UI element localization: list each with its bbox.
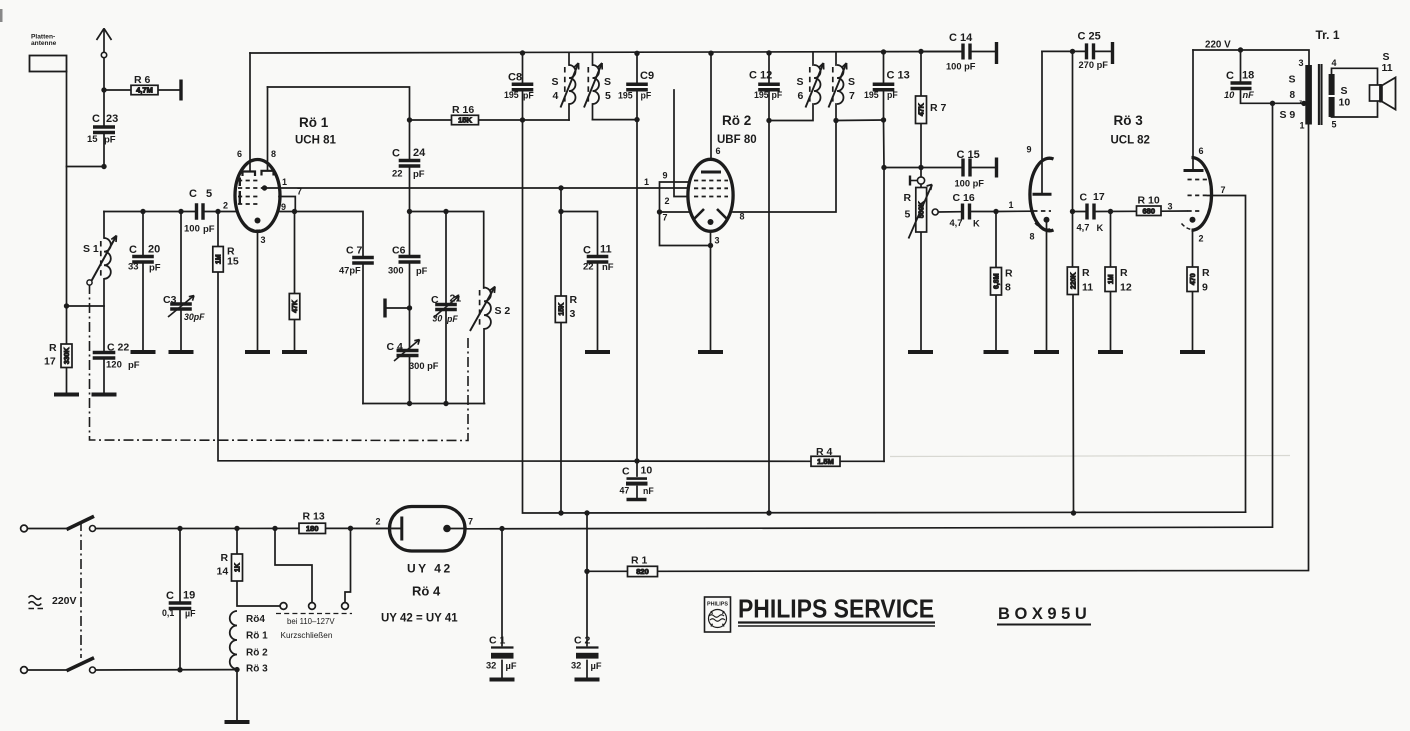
svg-text:5: 5 bbox=[605, 90, 611, 102]
svg-text:6,8M: 6,8M bbox=[994, 273, 1001, 289]
svg-text:47pF: 47pF bbox=[339, 266, 361, 276]
svg-text:Rö 3: Rö 3 bbox=[246, 664, 268, 675]
svg-text:R 16: R 16 bbox=[452, 104, 474, 116]
svg-text:9: 9 bbox=[1027, 145, 1032, 155]
svg-text:R 13: R 13 bbox=[303, 511, 325, 523]
svg-text:5: 5 bbox=[1332, 120, 1337, 130]
svg-text:18: 18 bbox=[1242, 70, 1254, 82]
svg-text:C: C bbox=[129, 244, 137, 256]
svg-text:33: 33 bbox=[128, 262, 139, 273]
svg-text:17: 17 bbox=[44, 356, 56, 368]
svg-text:8: 8 bbox=[271, 149, 276, 159]
svg-text:UCL 82: UCL 82 bbox=[1111, 135, 1150, 147]
svg-text:K: K bbox=[1097, 223, 1104, 233]
svg-text:C: C bbox=[166, 590, 174, 602]
svg-text:S: S bbox=[848, 76, 855, 88]
svg-text:Rö 3: Rö 3 bbox=[1114, 113, 1144, 128]
svg-text:1: 1 bbox=[1300, 121, 1305, 131]
svg-text:6: 6 bbox=[716, 146, 721, 156]
svg-text:C: C bbox=[189, 188, 197, 200]
svg-text:pF: pF bbox=[203, 224, 215, 235]
svg-text:8: 8 bbox=[1030, 232, 1035, 242]
svg-text:9: 9 bbox=[281, 202, 286, 212]
svg-text:C 4: C 4 bbox=[387, 341, 404, 353]
svg-text:C3: C3 bbox=[163, 294, 177, 306]
svg-text:3: 3 bbox=[261, 235, 266, 245]
svg-text:21: 21 bbox=[450, 293, 462, 305]
svg-text:Kurzschließen: Kurzschließen bbox=[281, 631, 333, 640]
svg-text:680: 680 bbox=[1142, 206, 1155, 215]
svg-text:500K: 500K bbox=[919, 201, 926, 218]
svg-text:UBF 80: UBF 80 bbox=[717, 134, 757, 146]
svg-text:120: 120 bbox=[106, 360, 122, 371]
svg-text:23: 23 bbox=[106, 113, 118, 125]
svg-text:S 2: S 2 bbox=[495, 305, 511, 317]
svg-text:nF: nF bbox=[602, 262, 614, 273]
svg-text:4: 4 bbox=[1332, 58, 1337, 68]
svg-text:Rö 1: Rö 1 bbox=[299, 115, 329, 130]
svg-text:1: 1 bbox=[1009, 200, 1014, 210]
svg-text:3: 3 bbox=[570, 308, 576, 320]
svg-text:µF: µF bbox=[185, 609, 196, 619]
svg-text:pF: pF bbox=[772, 90, 783, 100]
svg-text:22: 22 bbox=[392, 169, 403, 180]
svg-text:270 pF: 270 pF bbox=[1079, 60, 1109, 70]
svg-text:4,7: 4,7 bbox=[950, 218, 963, 228]
svg-text:R: R bbox=[1005, 268, 1013, 280]
svg-text:30pF: 30pF bbox=[184, 312, 205, 322]
svg-text:195: 195 bbox=[504, 90, 519, 100]
svg-text:195: 195 bbox=[864, 90, 879, 100]
svg-text:1: 1 bbox=[644, 177, 649, 187]
svg-text:pF: pF bbox=[149, 263, 161, 274]
svg-text:220V: 220V bbox=[52, 595, 77, 607]
svg-text:9: 9 bbox=[663, 171, 668, 181]
svg-text:C6: C6 bbox=[392, 245, 406, 257]
svg-text:pF: pF bbox=[446, 314, 458, 324]
svg-text:C: C bbox=[392, 148, 400, 160]
svg-text:6: 6 bbox=[1199, 146, 1204, 156]
svg-text:R: R bbox=[49, 342, 57, 354]
svg-text:UY 42: UY 42 bbox=[407, 562, 453, 576]
svg-text:1M: 1M bbox=[216, 254, 223, 264]
svg-text:19: 19 bbox=[183, 590, 195, 602]
svg-text:8: 8 bbox=[740, 212, 745, 222]
svg-text:C 2: C 2 bbox=[574, 635, 591, 647]
svg-text:PHILIPS: PHILIPS bbox=[707, 602, 728, 608]
svg-text:Rö 2: Rö 2 bbox=[246, 648, 268, 659]
svg-text:pF: pF bbox=[413, 169, 425, 180]
svg-text:8: 8 bbox=[1005, 282, 1011, 294]
svg-text:S: S bbox=[1341, 85, 1348, 97]
svg-text:Rö 4: Rö 4 bbox=[412, 584, 441, 599]
svg-text:3: 3 bbox=[715, 236, 720, 246]
svg-text:pF: pF bbox=[416, 266, 428, 276]
svg-text:195: 195 bbox=[618, 91, 633, 101]
svg-text:C 22: C 22 bbox=[107, 342, 129, 354]
svg-text:0,1: 0,1 bbox=[162, 608, 174, 618]
svg-text:2: 2 bbox=[665, 196, 670, 206]
svg-text:470: 470 bbox=[1190, 273, 1197, 285]
svg-text:15: 15 bbox=[87, 134, 98, 145]
svg-text:6: 6 bbox=[237, 149, 242, 159]
svg-text:15: 15 bbox=[227, 256, 239, 268]
svg-text:9: 9 bbox=[1202, 282, 1208, 294]
svg-text:R 6: R 6 bbox=[134, 74, 151, 86]
svg-text:S: S bbox=[1289, 74, 1296, 86]
svg-text:2: 2 bbox=[223, 201, 228, 211]
svg-text:R 4: R 4 bbox=[816, 446, 833, 458]
svg-text:300 pF: 300 pF bbox=[409, 361, 439, 371]
svg-text:2: 2 bbox=[1199, 234, 1204, 244]
svg-text:pF: pF bbox=[641, 91, 652, 101]
svg-text:R: R bbox=[1082, 267, 1090, 279]
svg-text:100 pF: 100 pF bbox=[946, 62, 976, 72]
svg-text:3: 3 bbox=[1168, 202, 1173, 212]
svg-text:47: 47 bbox=[620, 486, 630, 496]
svg-text:1M: 1M bbox=[1108, 274, 1115, 284]
svg-text:nF: nF bbox=[643, 486, 654, 496]
svg-text:4,7M: 4,7M bbox=[136, 86, 153, 95]
svg-text:4: 4 bbox=[553, 90, 559, 102]
svg-text:R: R bbox=[221, 552, 229, 564]
svg-text:C 15: C 15 bbox=[957, 149, 980, 161]
svg-text:S 1: S 1 bbox=[83, 243, 99, 255]
svg-text:15K: 15K bbox=[458, 116, 472, 125]
svg-text:C 13: C 13 bbox=[887, 70, 910, 82]
svg-text:220K: 220K bbox=[1070, 272, 1077, 289]
svg-text:3: 3 bbox=[1299, 58, 1304, 68]
svg-text:C: C bbox=[92, 113, 100, 125]
svg-text:S: S bbox=[604, 76, 611, 88]
svg-text:4,7: 4,7 bbox=[1077, 223, 1090, 233]
svg-text:Rö 1: Rö 1 bbox=[246, 631, 268, 642]
svg-text:14: 14 bbox=[217, 566, 229, 578]
svg-text:pF: pF bbox=[104, 135, 116, 146]
svg-text:11: 11 bbox=[600, 244, 612, 256]
svg-text:22: 22 bbox=[583, 262, 594, 273]
svg-text:Rö 2: Rö 2 bbox=[722, 113, 751, 128]
svg-text:UY 42 = UY 41: UY 42 = UY 41 bbox=[381, 613, 458, 625]
svg-text:C: C bbox=[583, 245, 591, 257]
svg-text:C 1: C 1 bbox=[489, 635, 506, 647]
svg-text:R 1: R 1 bbox=[631, 555, 648, 567]
svg-text:pF: pF bbox=[887, 90, 898, 100]
svg-text:30: 30 bbox=[433, 314, 443, 324]
svg-text:nF: nF bbox=[1243, 90, 1255, 100]
svg-text:R: R bbox=[1120, 267, 1128, 279]
svg-text:S 9: S 9 bbox=[1280, 109, 1296, 121]
svg-text:7: 7 bbox=[297, 187, 302, 197]
svg-text:47K: 47K bbox=[919, 103, 926, 116]
svg-text:24: 24 bbox=[413, 147, 426, 159]
svg-text:2: 2 bbox=[376, 517, 381, 527]
svg-text:K: K bbox=[973, 219, 980, 229]
svg-text:7: 7 bbox=[849, 90, 855, 102]
svg-text:11: 11 bbox=[1382, 62, 1393, 74]
svg-text:Tr. 1: Tr. 1 bbox=[1316, 28, 1340, 42]
svg-text:32: 32 bbox=[486, 661, 496, 671]
svg-text:R: R bbox=[904, 192, 912, 204]
svg-text:12: 12 bbox=[1120, 282, 1132, 294]
svg-text:100 pF: 100 pF bbox=[955, 179, 985, 189]
svg-text:1.5M: 1.5M bbox=[817, 457, 834, 466]
svg-text:C 12: C 12 bbox=[749, 70, 772, 82]
svg-text:7: 7 bbox=[1221, 185, 1226, 195]
svg-text:10: 10 bbox=[1224, 90, 1235, 100]
svg-text:PHILIPS SERVICE: PHILIPS SERVICE bbox=[738, 594, 934, 624]
svg-text:S: S bbox=[797, 76, 804, 88]
svg-text:6: 6 bbox=[798, 90, 804, 102]
svg-text:10: 10 bbox=[1339, 97, 1351, 109]
svg-text:1K: 1K bbox=[235, 563, 242, 572]
svg-text:C 16: C 16 bbox=[953, 192, 975, 204]
svg-text:7: 7 bbox=[663, 213, 668, 223]
svg-text:Rö4: Rö4 bbox=[246, 614, 265, 625]
svg-text:15K: 15K bbox=[558, 303, 565, 316]
svg-text:R: R bbox=[1202, 267, 1210, 279]
svg-text:UCH 81: UCH 81 bbox=[295, 135, 337, 147]
svg-text:220 V: 220 V bbox=[1205, 40, 1231, 51]
svg-text:C8: C8 bbox=[508, 72, 522, 84]
svg-text:7: 7 bbox=[468, 517, 473, 527]
svg-text:pF: pF bbox=[523, 91, 534, 101]
svg-text:C 14: C 14 bbox=[949, 32, 973, 44]
svg-text:8: 8 bbox=[1290, 90, 1296, 101]
svg-text:C 25: C 25 bbox=[1078, 31, 1101, 43]
svg-text:R 7: R 7 bbox=[930, 102, 947, 114]
svg-text:C: C bbox=[1080, 192, 1088, 204]
svg-text:bei 110–127V: bei 110–127V bbox=[287, 617, 335, 626]
svg-text:17: 17 bbox=[1093, 191, 1105, 203]
svg-text:10: 10 bbox=[641, 465, 653, 477]
svg-text:C: C bbox=[622, 466, 630, 478]
svg-text:47K: 47K bbox=[292, 300, 299, 313]
svg-text:195: 195 bbox=[754, 90, 769, 100]
svg-text:5: 5 bbox=[206, 188, 212, 200]
svg-text:820: 820 bbox=[636, 567, 649, 576]
svg-text:5: 5 bbox=[905, 209, 911, 221]
svg-text:µF: µF bbox=[591, 661, 602, 671]
svg-text:C: C bbox=[431, 294, 439, 306]
svg-text:C: C bbox=[1226, 70, 1234, 82]
svg-text:11: 11 bbox=[1082, 282, 1093, 294]
svg-text:180: 180 bbox=[306, 524, 319, 533]
svg-text:antenne: antenne bbox=[31, 40, 57, 47]
svg-text:300: 300 bbox=[388, 266, 404, 276]
svg-text:20: 20 bbox=[148, 244, 160, 256]
svg-text:C9: C9 bbox=[640, 70, 654, 82]
svg-text:R 10: R 10 bbox=[1138, 195, 1160, 207]
svg-text:µF: µF bbox=[506, 661, 517, 671]
svg-text:1: 1 bbox=[282, 177, 287, 187]
svg-text:330K: 330K bbox=[64, 347, 71, 364]
svg-text:C 7: C 7 bbox=[346, 245, 363, 257]
svg-text:pF: pF bbox=[128, 360, 140, 371]
svg-text:32: 32 bbox=[571, 661, 581, 671]
svg-text:S: S bbox=[552, 76, 559, 88]
svg-text:BOX95U: BOX95U bbox=[998, 605, 1090, 623]
svg-text:R: R bbox=[570, 294, 578, 306]
svg-text:100: 100 bbox=[184, 224, 200, 235]
